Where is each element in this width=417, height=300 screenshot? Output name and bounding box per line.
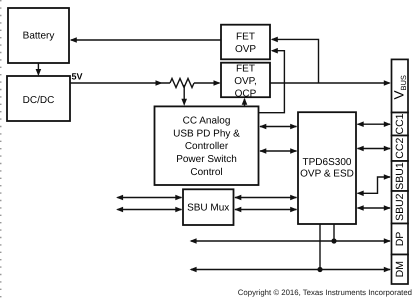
svg-text:OCP: OCP	[235, 89, 257, 100]
svg-text:SBU1: SBU1	[394, 162, 406, 190]
svg-text:OVP & ESD: OVP & ESD	[300, 169, 354, 180]
svg-text:Copyright © 2016, Texas Instru: Copyright © 2016, Texas Instruments Inco…	[238, 288, 412, 297]
svg-text:Controller: Controller	[185, 141, 229, 152]
svg-text:CC2: CC2	[394, 138, 406, 159]
svg-text:CC1: CC1	[394, 113, 406, 134]
svg-text:Control: Control	[190, 167, 222, 178]
svg-text:TPD6S300: TPD6S300	[303, 157, 352, 168]
svg-text:DM: DM	[394, 261, 406, 277]
svg-text:Power Switch: Power Switch	[176, 154, 237, 165]
svg-text:FET: FET	[236, 63, 255, 74]
svg-text:SBU2: SBU2	[394, 193, 406, 221]
svg-text:SBU Mux: SBU Mux	[187, 202, 229, 213]
svg-text:OVP: OVP	[235, 44, 256, 55]
svg-text:OVP,: OVP,	[234, 76, 257, 87]
svg-text:5V: 5V	[72, 72, 83, 82]
svg-text:Battery: Battery	[23, 30, 55, 41]
svg-text:CC Analog: CC Analog	[183, 115, 231, 126]
svg-text:DP: DP	[394, 232, 406, 247]
svg-text:USB PD Phy &: USB PD Phy &	[173, 128, 240, 139]
svg-text:DC/DC: DC/DC	[23, 95, 55, 106]
svg-text:FET: FET	[236, 32, 255, 43]
